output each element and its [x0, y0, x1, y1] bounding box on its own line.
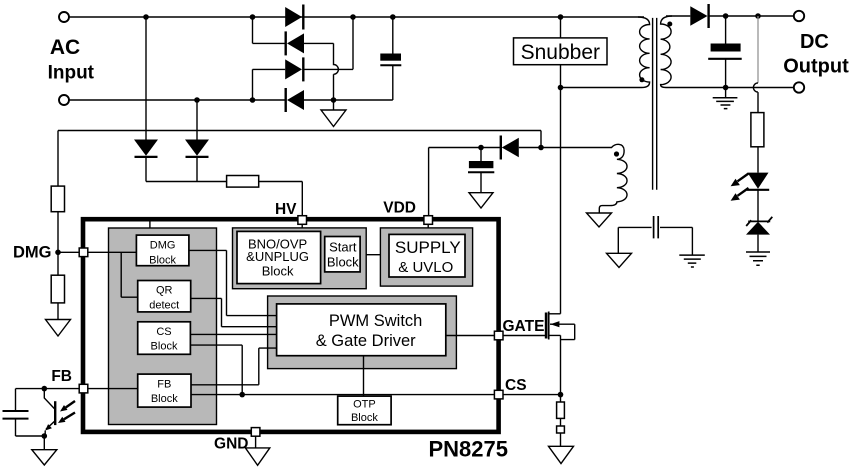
BNO OVP UNPLUG Block box	[237, 231, 321, 283]
node AC Input label	[48, 36, 95, 83]
svg-text:& UVLO: & UVLO	[398, 259, 453, 276]
svg-text:DMG: DMG	[13, 244, 52, 262]
wire bottom AC rail	[69, 99, 393, 101]
bridge diode D2	[286, 31, 304, 55]
wire HV pin stub	[301, 224, 303, 228]
svg-text:Output: Output	[783, 56, 849, 78]
wire FB pin to FB Block	[88, 388, 138, 390]
svg-text:QR: QR	[156, 285, 173, 297]
wire FB Block to PWM	[191, 348, 277, 385]
terminal AC line top	[59, 12, 69, 22]
diode D6 startup	[185, 100, 209, 182]
node CS junction	[558, 392, 564, 398]
wire R1 to R2	[57, 212, 59, 276]
optocoupler light arrows	[58, 401, 75, 423]
jumper box sense	[557, 418, 565, 446]
LED emission arrows	[731, 174, 749, 201]
PWM Switch grey box	[268, 296, 457, 369]
ground GND pin	[245, 436, 269, 465]
svg-text:OTP: OTP	[353, 399, 376, 411]
node emitter junction	[42, 433, 48, 439]
wire top AC rail	[69, 16, 644, 18]
gate bar	[545, 313, 548, 339]
wire D2 cathode to top rail	[253, 17, 286, 43]
terminal DC output top	[794, 11, 804, 21]
svg-text:AC: AC	[50, 36, 80, 59]
svg-text:PWM Switch: PWM Switch	[329, 312, 423, 330]
svg-text:Block: Block	[149, 254, 176, 266]
transformer primary phase dot	[639, 77, 644, 82]
capacitor C1 bulk	[380, 17, 401, 100]
op-amp U1 PN8275 IC outline	[83, 219, 499, 432]
capacitor C3 output	[708, 16, 742, 88]
ground bridge minus rail	[321, 100, 346, 127]
svg-text:SUPPLY: SUPPLY	[395, 238, 461, 257]
svg-text:FB: FB	[51, 368, 72, 385]
capacitor C4 FB	[3, 389, 29, 436]
node primary bottom junction	[558, 85, 564, 91]
DMG Block box	[136, 235, 189, 266]
internal function panel grey	[109, 228, 217, 425]
svg-text:Block: Block	[151, 341, 178, 353]
svg-text:DMG: DMG	[150, 239, 176, 251]
wire D3 cathode to top rail	[303, 17, 353, 69]
wire cap to emitter node	[16, 435, 46, 437]
pin VDD	[424, 216, 433, 225]
transformer secondary phase dot	[667, 22, 672, 27]
wire DMG node to DMG pin	[58, 251, 79, 253]
ground VDD cap	[469, 193, 493, 208]
resistor R1 DMG upper	[51, 186, 64, 212]
svg-text:PN8275: PN8275	[428, 437, 508, 462]
resistor R2 DMG lower	[51, 275, 64, 303]
diode D8 output rectifier	[690, 4, 708, 28]
wire source	[549, 335, 561, 394]
node internal CS junction	[239, 392, 245, 398]
wire CY left to ground	[617, 227, 619, 253]
wire snubber drain vertical	[560, 17, 562, 314]
node junction dots top rail	[143, 14, 563, 20]
wire PWM to GATE pin	[446, 335, 495, 337]
wire CS pin to sense node	[503, 394, 561, 396]
resistor R3 HV	[227, 176, 259, 188]
node aux tap junction	[538, 145, 544, 151]
BNO OVP UNPLUG grey box	[233, 228, 367, 289]
node DMG junction	[55, 250, 61, 256]
pin CS	[494, 390, 503, 399]
svg-text:Block: Block	[262, 263, 294, 278]
ground zener earth	[757, 235, 759, 252]
svg-text:Block: Block	[327, 254, 359, 269]
wire feedback chain from output	[757, 16, 759, 83]
SUPPLY UVLO box	[389, 234, 465, 277]
node VDD cap junction	[478, 145, 484, 151]
bridge diode D3	[285, 57, 303, 81]
channel bar	[548, 312, 550, 340]
ground sense resistor	[549, 446, 574, 463]
svg-text:Block: Block	[351, 412, 378, 424]
resistor R5 sense	[557, 395, 565, 419]
bridge diode D4	[286, 88, 304, 112]
ground CY primary side	[607, 253, 632, 267]
svg-text:& Gate Driver: & Gate Driver	[316, 332, 416, 350]
wire FB pin to opto network	[16, 388, 80, 390]
Start Block box	[325, 237, 360, 272]
ground output earth	[725, 88, 727, 98]
wire panel stub to top border	[149, 222, 151, 229]
pin DMG	[79, 248, 88, 257]
PWM Switch Gate Driver box	[277, 304, 446, 356]
ground FB network	[32, 436, 57, 465]
OTP Block box	[338, 396, 391, 425]
SUPPLY UVLO grey box	[380, 228, 472, 286]
node junction dots bottom rail	[194, 97, 336, 103]
wire DMG Block to PWM	[189, 250, 277, 315]
wire VDD pin stub	[427, 224, 429, 228]
CS Block box	[138, 322, 191, 355]
ground auxiliary winding	[587, 213, 612, 227]
svg-text:Snubber: Snubber	[521, 41, 600, 64]
diode D7 VDD rectifier	[501, 136, 519, 160]
node output junction dots	[723, 13, 761, 90]
pin GATE	[494, 331, 503, 340]
wire secondary top to output	[666, 15, 794, 17]
diode D5 startup	[134, 17, 158, 182]
svg-text:FB: FB	[157, 378, 171, 390]
wire BNO to SUPPLY	[366, 254, 380, 256]
zener D10	[746, 217, 772, 235]
transistor Q1 MOSFET	[546, 312, 575, 395]
transformer T1 auxiliary winding	[541, 144, 627, 213]
pin GND	[251, 428, 260, 437]
transformer core	[653, 18, 657, 190]
wire CY right to earth	[691, 227, 693, 255]
svg-text:CS: CS	[156, 326, 171, 338]
wire startup diodes to HV resistor	[146, 181, 227, 183]
wire drain to channel	[549, 313, 561, 315]
transistor Q2 optocoupler	[44, 389, 55, 436]
wire VDD net	[429, 148, 541, 216]
wire PWM to OTP	[363, 356, 365, 396]
wire D3 anode to bottom rail	[253, 69, 286, 100]
svg-text:GATE: GATE	[503, 318, 545, 335]
terminal DC output bottom	[794, 82, 804, 92]
wire GATE pin to gate	[503, 335, 545, 337]
svg-text:GND: GND	[214, 436, 248, 453]
resistor R4 LED	[751, 113, 764, 147]
wire CS Block to CS net	[190, 345, 242, 395]
wire FB Block to CS pin	[191, 394, 494, 396]
capacitor CY bridging	[618, 226, 692, 228]
pin HV	[298, 216, 307, 225]
wire D2 anode to minus rail with hop	[304, 43, 338, 100]
svg-text:VDD: VDD	[383, 200, 416, 217]
ground DMG divider	[46, 303, 71, 336]
svg-text:Start: Start	[329, 239, 357, 254]
svg-text:HV: HV	[275, 201, 297, 218]
wire DMG divider to aux winding	[58, 131, 541, 187]
FB Block box	[138, 374, 191, 407]
svg-text:DC: DC	[800, 31, 829, 53]
LED D9 optocoupler	[747, 173, 769, 190]
svg-text:Input: Input	[48, 62, 95, 83]
terminal AC line bottom	[59, 95, 69, 105]
bridge diode D1	[285, 5, 303, 30]
transformer auxiliary phase dot	[614, 151, 619, 156]
wire secondary bottom to output	[666, 87, 794, 89]
transformer T1 primary winding	[561, 17, 650, 88]
ground CY secondary earth	[679, 255, 705, 267]
wire CS Block to PWM	[190, 333, 276, 335]
wire DMG pin to DMG Block and QR detect	[88, 252, 138, 297]
svg-text:&UNPLUG: &UNPLUG	[246, 249, 309, 264]
svg-text:Block: Block	[151, 393, 178, 405]
node FB junction	[42, 386, 48, 392]
snubber box	[514, 38, 608, 65]
pin FB	[79, 384, 88, 393]
wire R4 to LED	[757, 147, 759, 173]
svg-text:CS: CS	[505, 377, 527, 394]
svg-text:detect: detect	[149, 300, 179, 312]
wire LED to zener	[757, 190, 759, 222]
wire QR detect to PWM	[191, 298, 277, 326]
body arrow	[550, 324, 575, 339]
wire R3 to HV pin	[259, 182, 303, 216]
capacitor C2 VDD	[468, 148, 494, 193]
QR detect box	[138, 281, 191, 312]
node DC Output label	[783, 31, 849, 78]
transformer T1 secondary winding	[661, 16, 672, 88]
